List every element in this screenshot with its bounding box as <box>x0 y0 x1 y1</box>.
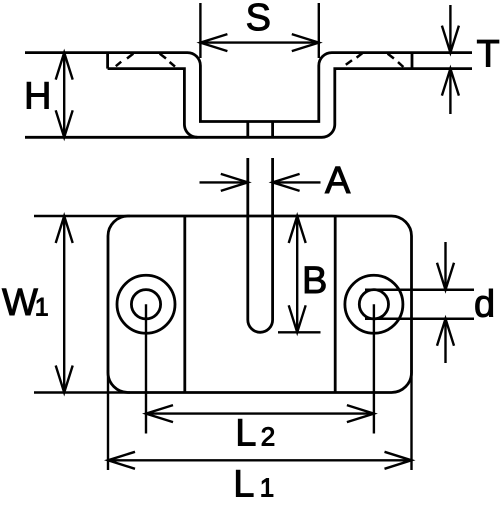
left flange end cap <box>106 53 109 69</box>
B extension line at slot bottom <box>278 331 321 333</box>
svg-text:W: W <box>2 282 38 324</box>
center slot <box>248 158 273 332</box>
svg-text:d: d <box>474 284 495 326</box>
d extension line top <box>365 289 474 291</box>
left hole outer circle <box>117 275 175 333</box>
slot edge (left) seen in section <box>246 122 249 138</box>
svg-text:B: B <box>302 260 327 302</box>
bend line left <box>183 216 186 393</box>
svg-text:S: S <box>246 0 271 39</box>
svg-text:2: 2 <box>261 421 275 451</box>
L1 extension line right <box>410 370 412 470</box>
slot edge (right) seen in section <box>271 122 274 138</box>
top surface line with H extension (left) through bend into left wall inner surface, inner bottom, right wall inner surface, bend, top surface with T extension (right) <box>25 53 472 122</box>
L1 extension line left <box>107 370 109 470</box>
svg-text:H: H <box>24 75 51 117</box>
dimension W1 arrow line <box>56 216 73 393</box>
svg-text:L: L <box>233 463 254 500</box>
dimension L1 arrow line <box>108 452 412 469</box>
d extension line bottom <box>365 318 474 320</box>
dimension S extension lines <box>200 3 318 58</box>
dimension A right arrow <box>273 174 321 191</box>
left hole inner circle <box>131 290 160 319</box>
L2 extension line from right hole center <box>373 304 375 433</box>
dimension T upper arrow <box>442 5 459 53</box>
right flange end cap <box>411 53 414 69</box>
right hole outer circle <box>345 275 403 333</box>
dimension d lower arrow <box>437 319 454 363</box>
dimension S arrow line <box>200 34 318 51</box>
flange underside left <box>108 69 198 138</box>
plate outline rounded rectangle <box>108 216 412 393</box>
svg-text:T: T <box>477 34 500 76</box>
svg-text:A: A <box>325 160 351 202</box>
dimension T lower arrow <box>442 69 459 114</box>
right hole inner circle <box>359 290 388 319</box>
dimension H arrow line <box>56 53 73 138</box>
W1 extension line top <box>34 215 130 217</box>
dimension B arrow line <box>289 216 306 332</box>
dimension L2 arrow line <box>146 405 374 422</box>
dimension d upper arrow <box>437 242 454 290</box>
serration marks left flange <box>116 54 175 67</box>
svg-text:1: 1 <box>35 294 49 322</box>
W1 extension line bottom <box>34 391 130 393</box>
L2 extension line from left hole center <box>145 304 147 433</box>
bend line right <box>334 216 337 393</box>
dimension A left arrow <box>200 174 248 191</box>
svg-text:L: L <box>235 412 256 454</box>
serration marks right flange <box>346 53 404 67</box>
channel outer bottom line with H extension (left) <box>25 69 472 138</box>
svg-text:1: 1 <box>260 472 274 500</box>
